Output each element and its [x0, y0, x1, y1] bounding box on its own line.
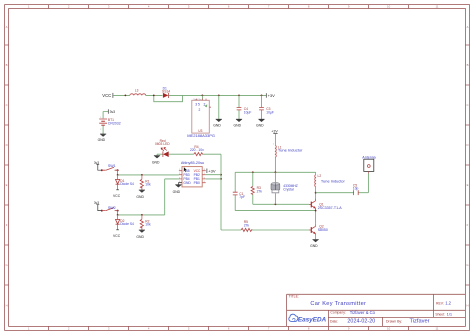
svg-text:3v3: 3v3 — [110, 110, 116, 114]
svg-text:10µF: 10µF — [266, 110, 274, 114]
svg-text:SW1: SW1 — [108, 164, 116, 168]
svg-text:F: F — [6, 223, 8, 227]
svg-text:C: C — [466, 103, 468, 107]
svg-text:TITLE:: TITLE: — [289, 295, 299, 299]
svg-text:2: 2 — [199, 108, 201, 112]
svg-text:27k: 27k — [244, 224, 250, 228]
svg-text:GND: GND — [173, 190, 181, 194]
svg-text:PB0: PB0 — [194, 181, 200, 185]
svg-text:10: 10 — [387, 5, 391, 9]
svg-text:10µF: 10µF — [244, 110, 252, 114]
svg-text:Company:: Company: — [330, 311, 346, 315]
svg-text:3v3: 3v3 — [94, 201, 99, 205]
svg-text:E: E — [467, 183, 469, 187]
svg-text:GND: GND — [256, 123, 264, 127]
svg-text:220 - 10x: 220 - 10x — [190, 148, 204, 152]
svg-text:B: B — [6, 63, 8, 67]
svg-text:Date:: Date: — [330, 320, 338, 324]
svg-text:7pF: 7pF — [239, 195, 245, 199]
svg-text:G: G — [6, 263, 8, 267]
svg-text:GND: GND — [310, 244, 318, 248]
svg-text:B: B — [467, 63, 469, 67]
svg-text:10k: 10k — [145, 223, 151, 227]
svg-text:Crystal: Crystal — [283, 188, 294, 192]
svg-text:10: 10 — [387, 327, 391, 331]
svg-text:10p: 10p — [353, 187, 359, 191]
svg-text:CR2032: CR2032 — [108, 121, 121, 125]
svg-text:GND: GND — [234, 123, 242, 127]
svg-text:E: E — [6, 183, 8, 187]
svg-text:+3V: +3V — [268, 93, 276, 98]
svg-text:Diode S4: Diode S4 — [120, 222, 134, 226]
svg-text:H: H — [466, 304, 468, 308]
svg-text:GND: GND — [213, 123, 221, 127]
svg-text:ME2188A33PG: ME2188A33PG — [187, 133, 215, 138]
svg-text:VCC: VCC — [102, 93, 111, 98]
svg-text:REV:: REV: — [436, 301, 444, 305]
svg-text:Tune Inductor: Tune Inductor — [278, 148, 303, 153]
svg-text:GND: GND — [183, 181, 191, 185]
svg-text:2SC3357-T1-A: 2SC3357-T1-A — [318, 206, 343, 210]
svg-text:27k: 27k — [257, 190, 263, 194]
svg-text:D: D — [6, 143, 8, 147]
svg-text:10k: 10k — [145, 183, 151, 187]
svg-text:SW2: SW2 — [108, 206, 116, 210]
svg-text:0603 LED: 0603 LED — [155, 142, 170, 146]
svg-text:GND: GND — [98, 138, 106, 142]
svg-text:Tune Inductor: Tune Inductor — [321, 179, 346, 184]
svg-text:VCC: VCC — [113, 194, 121, 198]
svg-text:11: 11 — [436, 5, 439, 9]
svg-text:Car Key Transmitter: Car Key Transmitter — [310, 301, 366, 307]
svg-text:Drawn By:: Drawn By: — [386, 320, 402, 324]
svg-text:SS14: SS14 — [162, 90, 170, 94]
svg-text:F: F — [467, 223, 469, 227]
svg-text:L3: L3 — [135, 89, 139, 93]
svg-text:C: C — [6, 103, 8, 107]
svg-text:Vout Vin: Vout Vin — [193, 98, 202, 101]
svg-text:+3V: +3V — [271, 130, 278, 134]
svg-text:11: 11 — [436, 327, 439, 331]
svg-text:3 5: 3 5 — [195, 103, 200, 107]
svg-text:A: A — [467, 25, 469, 29]
svg-text:Diode S4: Diode S4 — [120, 182, 134, 186]
svg-text:Sheet:: Sheet: — [435, 313, 445, 317]
svg-text:EasyEDA: EasyEDA — [298, 317, 327, 324]
svg-text:GND: GND — [152, 160, 160, 164]
svg-text:1.2: 1.2 — [445, 300, 451, 305]
svg-text:A: A — [6, 25, 8, 29]
svg-text:Attiny85-20su: Attiny85-20su — [181, 161, 204, 165]
svg-text:VCC: VCC — [113, 234, 121, 238]
svg-text:D: D — [466, 143, 468, 147]
svg-text:G: G — [466, 263, 468, 267]
svg-text:2024-02-20: 2024-02-20 — [347, 319, 375, 325]
svg-text:+3V: +3V — [208, 169, 216, 174]
svg-text:Tizfaver & Co: Tizfaver & Co — [350, 310, 376, 315]
svg-text:Tizfaver: Tizfaver — [410, 319, 430, 325]
svg-text:H: H — [6, 304, 8, 308]
svg-text:S8050: S8050 — [318, 228, 328, 232]
svg-text:GND: GND — [136, 235, 144, 239]
svg-text:L2: L2 — [318, 174, 322, 178]
svg-text:1/1: 1/1 — [447, 312, 453, 317]
svg-text:GND: GND — [136, 195, 144, 199]
